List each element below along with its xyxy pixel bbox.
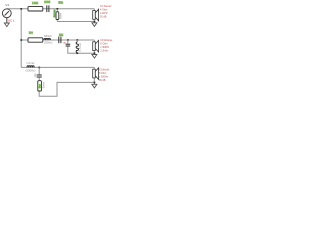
speaker X1 Tweeter	[93, 9, 99, 22]
junction L3 bottom	[77, 52, 79, 54]
junction bus/top	[20, 8, 22, 10]
svg-text:4.7uF: 4.7uF	[44, 0, 50, 4]
label C2 (green tag)	[59, 33, 64, 37]
label X2 Midrange (red block)	[100, 38, 112, 53]
svg-text:1.5mH: 1.5mH	[26, 61, 34, 65]
svg-text:X1 Tweeter: X1 Tweeter	[100, 4, 112, 8]
inductor L3 (shunt, mid row)	[76, 40, 78, 53]
capacitor C4 (zobel)	[37, 67, 42, 80]
svg-text:V1: V1	[5, 3, 9, 7]
label R3 (green tag)	[29, 31, 34, 35]
svg-text:10u: 10u	[59, 33, 63, 37]
wire midrange return	[68, 46, 95, 53]
svg-text:4.7mH: 4.7mH	[32, 1, 38, 5]
ground (source)	[4, 23, 9, 27]
label C1 (green tag)	[44, 0, 50, 4]
junction woofer return	[94, 82, 96, 84]
resistor R1 (series, top row)	[28, 7, 43, 11]
speaker X3 Woofer	[93, 67, 99, 82]
junction mid/L3	[77, 39, 79, 41]
wire top rail	[7, 8, 95, 10]
svg-text:AC 1: AC 1	[8, 18, 15, 22]
svg-text:0.5mH: 0.5mH	[78, 43, 82, 51]
inductor L2 (series, mid row)	[44, 39, 51, 41]
junction bus/mid	[20, 39, 22, 41]
label X3 Woofer (red block)	[99, 68, 109, 83]
label X1 Tweeter (red block)	[100, 4, 112, 19]
svg-text:10u: 10u	[33, 73, 37, 78]
svg-text:89 dB: 89 dB	[99, 79, 106, 82]
ground (woofer)	[92, 83, 97, 88]
speaker X2 Midrange	[93, 40, 99, 53]
junction midrange return	[94, 52, 96, 54]
svg-text:R1k: R1k	[59, 1, 64, 5]
svg-text:8ohm: 8ohm	[59, 13, 62, 19]
capacitor C3 (shunt, mid row)	[66, 40, 71, 46]
svg-text:680uF: 680uF	[44, 34, 52, 38]
voltage source V1	[2, 9, 11, 23]
svg-text:(300Hz): (300Hz)	[26, 68, 36, 72]
svg-text:(30Hz): (30Hz)	[44, 40, 52, 44]
wire left bus	[20, 9, 22, 68]
svg-text:X4 Midrange: X4 Midrange	[100, 38, 112, 42]
wire bottom rail	[21, 66, 94, 68]
junction mid/C3	[67, 39, 69, 41]
label R4 (green, vertical, inside)	[37, 84, 41, 89]
junction tweeter return	[94, 21, 96, 23]
ground (tweeter)	[92, 22, 97, 26]
wire mid rail	[21, 39, 94, 41]
resistor R4 (zobel)	[38, 81, 42, 91]
ground (midrange)	[92, 54, 97, 58]
inductor L4 (series, bottom row)	[27, 66, 34, 68]
wire woofer return staircase	[39, 82, 94, 96]
wire tweeter return	[57, 21, 94, 23]
svg-text:8ohm: 8ohm	[52, 9, 56, 17]
resistor R3 (series, mid row)	[28, 38, 43, 42]
net tag tweeter (green)	[58, 1, 63, 5]
capacitor C2 (series, mid row)	[59, 37, 61, 44]
label R1 (green tag)	[32, 1, 38, 5]
label R2 (green, vertical)	[52, 9, 56, 18]
resistor R2 (shunt, top row)	[56, 10, 58, 22]
svg-text:92 dB: 92 dB	[100, 16, 107, 19]
junction top/R2	[57, 8, 59, 10]
svg-text:2.2kHz: 2.2kHz	[100, 50, 108, 53]
svg-text:8o: 8o	[37, 84, 41, 89]
svg-text:X3 Woofer: X3 Woofer	[99, 68, 109, 72]
junction bottom/zobel	[38, 67, 40, 69]
svg-text:8ohm: 8ohm	[43, 82, 46, 88]
capacitor C1 (series, top row)	[47, 5, 49, 12]
